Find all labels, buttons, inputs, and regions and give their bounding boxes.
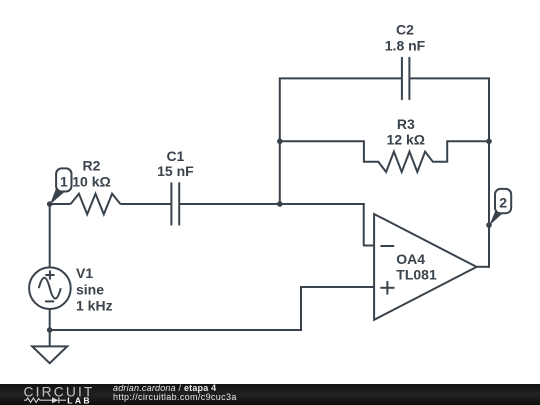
svg-text:C1: C1 (166, 148, 184, 164)
svg-text:15 nF: 15 nF (157, 163, 194, 179)
svg-text:1 kHz: 1 kHz (76, 297, 113, 313)
ground symbol (32, 346, 67, 363)
wire node1 to V1 top (49, 204, 51, 267)
CircuitLab logo (22, 383, 102, 405)
op-amp noninverting pin plus sign (380, 281, 394, 295)
svg-text:1: 1 (60, 173, 68, 189)
junction node 2 (486, 222, 492, 228)
capacitor C2 (402, 57, 410, 100)
op-amp OA4 body (374, 214, 477, 320)
node 1 callout (50, 168, 72, 204)
op-amp inverting pin minus sign (380, 245, 394, 247)
node 2 callout (489, 189, 511, 226)
svg-text:R3: R3 (397, 116, 415, 132)
junction inverting node (277, 201, 283, 207)
capacitor C1 (171, 182, 179, 225)
junction feedback right R3 (486, 139, 492, 145)
wire noninverting riser (300, 287, 302, 331)
wire C2 to top right (409, 77, 490, 79)
voltage source V1 circle (29, 267, 71, 309)
svg-text:OA4: OA4 (396, 251, 425, 267)
wire drop to inverting level (363, 203, 365, 246)
wire noninverting input lead (300, 286, 374, 288)
svg-text:V1: V1 (76, 265, 93, 281)
wire R2 to C1 (120, 203, 171, 205)
wire node1 to R2 (49, 203, 71, 205)
svg-text:sine: sine (76, 281, 104, 297)
wire C1 to drop (179, 203, 365, 205)
junction ground (47, 327, 53, 333)
svg-text:1.8 nF: 1.8 nF (385, 38, 426, 54)
wire top left to C2 (279, 77, 402, 79)
svg-text:10 kΩ: 10 kΩ (72, 173, 110, 189)
wire V1 bottom to ground junction (49, 310, 51, 332)
svg-text:R2: R2 (83, 158, 101, 174)
V1 plus polarity mark (45, 270, 54, 279)
V1 sine symbol (39, 278, 61, 299)
junction node 1 (47, 201, 53, 207)
wire output right vertical (488, 78, 490, 267)
wire inverting input lead (363, 245, 374, 247)
wire ground junction to noninverting branch (49, 329, 303, 331)
svg-text:2: 2 (499, 194, 507, 210)
wire feedback left vertical (279, 78, 281, 204)
junction feedback left R3 (277, 139, 283, 145)
resistor R2 (71, 194, 121, 215)
wire op-amp output (476, 266, 490, 268)
svg-text:TL081: TL081 (396, 267, 437, 283)
svg-text:C2: C2 (396, 22, 414, 38)
svg-text:12 kΩ: 12 kΩ (387, 131, 425, 147)
resistor R3 (280, 141, 490, 172)
footer bar (0, 384, 540, 405)
wire ground stub (49, 330, 51, 347)
svg-text:LAB: LAB (67, 395, 92, 405)
V1 minus polarity mark (45, 300, 54, 302)
